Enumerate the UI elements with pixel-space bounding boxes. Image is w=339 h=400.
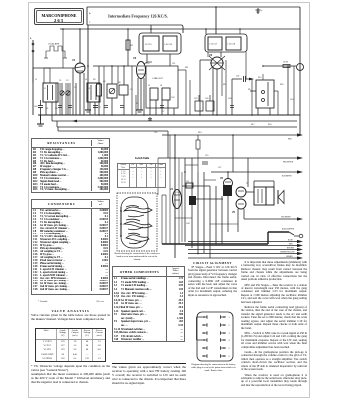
svg-text:A: A <box>89 12 91 15</box>
svg-text:R8: R8 <box>118 82 120 84</box>
plug pin pair 6 <box>202 354 231 358</box>
other components table <box>112 266 185 342</box>
coil L3 L4 RF coupling <box>87 83 100 102</box>
svg-text:5: 5 <box>229 348 231 350</box>
svg-text:R3: R3 <box>93 79 95 81</box>
svg-text:C3 R4: C3 R4 <box>283 62 288 64</box>
wire HT rail y=29 <box>60 28 300 30</box>
svg-text:R11: R11 <box>185 67 188 69</box>
battery note paragraph <box>112 366 186 386</box>
chassis sketch caption <box>114 253 160 262</box>
wire x=175 dropper <box>175 135 180 258</box>
svg-text:C20: C20 <box>205 98 208 100</box>
right column text <box>241 261 307 389</box>
valve V5 output pentode <box>232 187 246 214</box>
svg-text:Y: Y <box>89 22 91 24</box>
valve analysis heading <box>31 309 110 313</box>
svg-text:S17: S17 <box>251 124 254 126</box>
svg-text:C2: C2 <box>66 80 68 82</box>
coil L10 C14 <box>163 36 177 51</box>
svg-text:S18: S18 <box>268 124 271 126</box>
svg-text:C19: C19 <box>194 98 197 100</box>
svg-text:R12: R12 <box>223 84 226 86</box>
capacitor C9 with trimmer <box>107 66 117 115</box>
transformer 1st IF can <box>139 33 181 54</box>
wire grid line y=66 <box>93 65 136 67</box>
plug pin pair 3 <box>202 331 231 335</box>
capacitor C38 on dropper <box>202 162 208 164</box>
svg-text:V5: V5 <box>232 211 236 214</box>
svg-text:C.PAD 6927: C.PAD 6927 <box>152 77 164 80</box>
svg-text:R10: R10 <box>280 84 283 86</box>
svg-text:C12: C12 <box>154 132 157 134</box>
svg-text:L1: L1 <box>44 88 46 90</box>
svg-text:C17: C17 <box>218 167 221 169</box>
coil L5 oscillator <box>150 88 158 100</box>
capacitor C30 <box>34 100 43 120</box>
valve V1 <box>72 58 85 73</box>
wire battery lead y=253.5 GREEN/YELLOW <box>188 252 303 256</box>
coil L13 C17 <box>208 37 222 50</box>
capacitor C41 <box>186 181 193 188</box>
svg-text:1: 1 <box>229 317 231 319</box>
valve V3 IF amplifier <box>209 53 225 70</box>
svg-text:BROWN: BROWN <box>287 248 295 250</box>
svg-text:BLK/WHITE: BLK/WHITE <box>282 176 292 178</box>
IF frequency label box <box>87 7 300 33</box>
resistances table <box>31 138 110 193</box>
valve V2 frequency changer <box>133 56 146 79</box>
footnote variable/preset <box>38 300 104 303</box>
valve V6 detector diode <box>220 172 233 188</box>
svg-text:C41: C41 <box>186 181 189 183</box>
wire chassis bus y=115 <box>38 114 300 116</box>
node A (grid bias tap) <box>89 12 91 24</box>
battery plug outline <box>197 312 233 361</box>
wire x=233 dropper <box>232 135 234 172</box>
svg-text:GREEN/YELLOW: GREEN/YELLOW <box>280 252 295 254</box>
svg-text:C4: C4 <box>74 87 76 89</box>
wire rungs lower right <box>175 165 238 224</box>
plug pin pair 5 <box>202 346 231 350</box>
svg-text:C9: C9 <box>103 81 105 83</box>
svg-text:BLUE: BLUE <box>288 240 293 242</box>
svg-text:R13: R13 <box>198 132 201 134</box>
coil L1 L2 aerial tuning <box>43 83 58 102</box>
svg-text:V3: V3 <box>209 53 213 57</box>
svg-text:V6: V6 <box>220 177 224 180</box>
capacitor C7 <box>93 106 101 110</box>
wire anode feed x=216 <box>215 7 217 34</box>
coil AF choke <box>223 185 232 196</box>
wire lower-left cluster <box>158 135 182 244</box>
wire V1 anode to HT rail <box>79 29 81 63</box>
plug diagram caption <box>190 364 237 373</box>
svg-text:C26: C26 <box>236 76 239 78</box>
svg-text:C3: C3 <box>55 108 57 110</box>
capacitor C26 detector coupling <box>232 76 254 116</box>
wire V3 extra drops <box>208 29 294 115</box>
wire V1 cathode down <box>79 73 81 115</box>
svg-text:R6: R6 <box>131 45 133 47</box>
svg-text:RED/WHITE: RED/WHITE <box>283 162 294 164</box>
ground chassis symbol <box>37 115 44 126</box>
svg-text:V1: V1 <box>72 58 76 62</box>
wire mid extra verticals <box>104 62 190 115</box>
plug pin pair 2 <box>202 323 231 327</box>
svg-text:C11: C11 <box>172 63 175 65</box>
svg-text:6: 6 <box>229 356 231 358</box>
aerial terminal <box>30 37 34 115</box>
plug pin pair 1 <box>202 315 231 319</box>
wire V5 anode to transformer <box>246 158 274 192</box>
wire battery lead y=245.5 RED <box>185 244 303 248</box>
svg-text:+: + <box>261 10 263 13</box>
wire grid drops left <box>46 68 95 115</box>
svg-text:T2: T2 <box>246 183 248 185</box>
svg-text:L6: L6 <box>160 85 162 87</box>
wire V2 pins down <box>138 78 144 115</box>
ground V2 <box>136 110 143 112</box>
svg-text:Intermediate Frequency 126 KC/: Intermediate Frequency 126 KC/S. <box>108 14 168 19</box>
capacitor C12 pair <box>148 117 152 121</box>
svg-text:R1: R1 <box>46 108 48 110</box>
rule above battery note <box>112 363 186 364</box>
svg-text:L3: L3 <box>85 79 87 81</box>
svg-text:LOCAL AMP: LOCAL AMP <box>48 43 60 46</box>
svg-text:C14: C14 <box>290 99 293 101</box>
wire V3 connections <box>200 29 221 115</box>
title box MARCONIPHONE 263 <box>34 8 84 25</box>
capacitor C19 C20 strip <box>195 95 214 111</box>
condensers table <box>31 199 110 295</box>
transformer 2nd IF can <box>205 34 247 52</box>
svg-text:C7: C7 <box>162 111 164 113</box>
svg-text:R7: R7 <box>136 103 138 105</box>
sketch terminal strip <box>120 207 122 237</box>
svg-text:V4: V4 <box>170 188 174 191</box>
valve analysis table <box>35 328 106 362</box>
capacitor C44 electrolytic <box>189 196 196 205</box>
wire extra left verticals <box>33 29 70 115</box>
svg-text:L1: L1 <box>35 79 37 81</box>
svg-text:YEL/WHITE: YEL/WHITE <box>281 217 291 219</box>
svg-text:3: 3 <box>229 333 231 335</box>
svg-text:L10 C14: L10 C14 <box>165 44 173 46</box>
svg-text:C16: C16 <box>228 98 231 100</box>
wire verticals into chassis sketch region <box>162 195 166 244</box>
wire grid line y=68 <box>33 67 75 69</box>
capacitor row along bus <box>58 106 234 108</box>
svg-text:V2: V2 <box>133 56 137 60</box>
svg-text:L13 C17: L13 C17 <box>210 44 218 46</box>
wire 1st IF connections <box>144 25 170 66</box>
component reference labels <box>35 63 293 225</box>
circuit alignment text <box>188 266 237 299</box>
svg-text:C30: C30 <box>34 106 37 108</box>
ground V2 cathode <box>85 110 91 112</box>
svg-text:C44: C44 <box>186 223 189 225</box>
svg-text:R18: R18 <box>177 192 180 194</box>
HT+ terminal <box>256 8 264 14</box>
wire battery lead y=158 <box>158 156 303 163</box>
resistor R5 SG feed <box>97 66 102 115</box>
svg-text:C15: C15 <box>205 155 208 157</box>
chassis sketch frame <box>117 193 157 251</box>
wire battery lead y=135 <box>162 133 303 140</box>
svg-text:C24: C24 <box>171 97 174 99</box>
svg-text:C1: C1 <box>59 80 61 82</box>
speaker <box>278 190 284 204</box>
svg-text:2: 2 <box>229 325 231 327</box>
wire LT bus y=127 <box>57 121 297 127</box>
wire battery lead y=241.5 BLUE <box>188 240 303 244</box>
wire heavy chassis bus y=244 <box>162 232 289 244</box>
svg-text:BLACK/WHITE: BLACK/WHITE <box>282 228 295 231</box>
switch table <box>117 157 167 160</box>
resistor R13 on dropper <box>196 140 200 149</box>
wire battery lead y=258 GREEN <box>188 256 303 260</box>
svg-text:4: 4 <box>229 340 231 342</box>
resistor R8 grid leak <box>119 66 128 115</box>
wire oscillator drops <box>150 100 174 115</box>
coil L14 C18 <box>226 37 241 50</box>
switch on-off battery <box>282 228 303 238</box>
coil L6 reaction <box>162 88 170 100</box>
capacitor C2 trimmer <box>66 83 70 115</box>
transformer output T1 <box>254 187 274 205</box>
valve analysis footnotes <box>31 365 110 373</box>
svg-text:C8: C8 <box>130 89 132 91</box>
svg-text:L9 C13: L9 C13 <box>145 44 152 46</box>
svg-text:R9: R9 <box>248 89 250 91</box>
svg-text:A: A <box>30 37 32 40</box>
capacitor C1 tuning <box>60 83 64 115</box>
wire right rail x=300 <box>299 7 301 135</box>
wire speaker lead y=219 <box>244 217 303 221</box>
coil L9 C13 <box>143 36 159 51</box>
svg-text:L5: L5 <box>148 85 150 87</box>
svg-text:GREEN: GREEN <box>286 256 293 258</box>
resistor R4 top right <box>263 62 296 68</box>
circuit alignment heading <box>188 262 237 265</box>
chassis outline capsule <box>121 197 148 248</box>
wave-trap (local amp) filter <box>44 43 67 59</box>
oscillator section box <box>146 66 178 108</box>
plug pin pair 4 <box>202 338 231 342</box>
svg-text:C10: C10 <box>146 63 149 65</box>
wire screen feed x=88 <box>87 25 89 110</box>
wire GB bus y=131 <box>58 127 168 158</box>
gang condenser vanes <box>124 206 152 244</box>
valve V7 top cap <box>288 64 304 116</box>
wire battery lead y=172 <box>211 170 303 177</box>
svg-text:S15: S15 <box>258 77 261 79</box>
wire battery lead y=249.5 BROWN <box>188 248 303 252</box>
plug link wire <box>197 317 203 340</box>
wire AF stage drops <box>182 158 244 258</box>
resistor R6 <box>126 29 133 66</box>
valve V4 AF amplifier <box>170 188 182 209</box>
svg-text:L14 C18: L14 C18 <box>228 44 236 46</box>
svg-text:RED: RED <box>288 139 292 141</box>
switch unit box S1 <box>250 74 274 115</box>
wire AVC bus y=121 with arrow <box>52 115 297 122</box>
